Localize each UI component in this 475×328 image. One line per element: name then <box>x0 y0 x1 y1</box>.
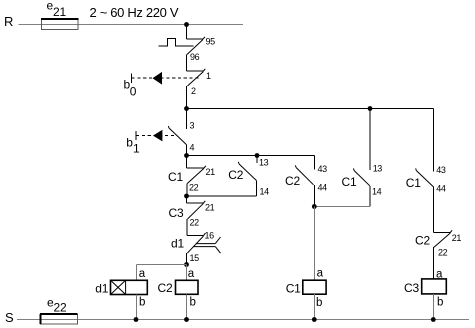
node rail S at C1 <box>312 317 317 322</box>
svg-text:1: 1 <box>133 142 140 156</box>
svg-text:d1: d1 <box>171 237 184 251</box>
pin 21 of C3 <box>205 203 215 213</box>
wire d1 coil to rail S <box>136 295 138 320</box>
svg-text:22: 22 <box>190 218 200 228</box>
svg-text:a: a <box>317 268 324 280</box>
pin 95 <box>206 37 216 47</box>
svg-text:C1: C1 <box>168 170 183 184</box>
svg-text:43: 43 <box>436 165 446 175</box>
node below C1 22 <box>184 194 189 199</box>
svg-text:2 ~ 60 Hz 220 V: 2 ~ 60 Hz 220 V <box>90 5 179 20</box>
node rail S at C3 <box>431 317 436 322</box>
wire node4 line to C2 43 column <box>187 155 315 157</box>
svg-text:44: 44 <box>318 183 328 193</box>
svg-text:1: 1 <box>206 71 211 81</box>
svg-text:R: R <box>4 14 13 29</box>
wire down to d1 coil <box>136 265 138 281</box>
label b1 <box>126 136 140 156</box>
label C2 (43-44) <box>285 174 300 188</box>
label d1 coil <box>95 282 108 296</box>
svg-text:C1: C1 <box>406 176 421 190</box>
svg-text:2: 2 <box>191 86 196 96</box>
svg-text:C2: C2 <box>158 281 173 295</box>
pin 96 <box>190 52 200 62</box>
svg-text:96: 96 <box>190 52 200 62</box>
wire rail R <box>19 24 244 26</box>
fuse e21 <box>41 19 79 30</box>
svg-text:14: 14 <box>372 187 382 197</box>
svg-text:d1: d1 <box>95 282 108 296</box>
label e22 <box>47 296 67 315</box>
coil C2 <box>176 280 199 294</box>
label C3 <box>169 206 184 220</box>
node rail S at C2 <box>184 317 189 322</box>
pushbutton b0 NC contact <box>187 69 206 109</box>
pin 14 of C1 <box>372 187 382 197</box>
node 4 <box>184 153 189 158</box>
node rail S at d1 <box>134 317 139 322</box>
terminal b of C2 <box>190 297 196 309</box>
pin 43 of C1 <box>436 165 446 175</box>
pin 14 <box>260 187 270 197</box>
coil C3 <box>422 279 447 294</box>
svg-text:43: 43 <box>318 164 328 174</box>
svg-text:14: 14 <box>260 187 270 197</box>
pin 21 <box>206 167 216 177</box>
svg-text:b: b <box>139 297 145 309</box>
node on rail R <box>184 22 189 27</box>
pin 15 <box>190 253 200 263</box>
label C1 (13-14) <box>342 175 357 189</box>
wire right column down from node line <box>432 109 434 172</box>
pin 13 of C1 <box>373 164 383 174</box>
contact C1 21-22 NC <box>187 156 206 197</box>
b0 actuator (dashed with arrow) <box>132 72 200 85</box>
pin 43 of C2 <box>318 164 328 174</box>
pin 44 of C1 <box>436 184 446 194</box>
contact C2 43-44 NO <box>295 156 314 207</box>
node below C2 44 <box>312 204 317 209</box>
b1 actuator (dashed with arrow) <box>136 130 176 142</box>
svg-text:b: b <box>190 297 196 309</box>
wire 96 to b0 <box>186 55 188 72</box>
pin 2 <box>191 86 196 96</box>
svg-text:22: 22 <box>189 183 199 193</box>
overload relay contact 95-96 <box>159 37 206 55</box>
svg-text:4: 4 <box>190 143 195 153</box>
svg-text:13: 13 <box>259 158 269 168</box>
svg-text:95: 95 <box>206 37 216 47</box>
label d1 <box>171 237 184 251</box>
pin 22 of C2 <box>438 248 448 258</box>
label e21 <box>47 0 67 19</box>
svg-text:13: 13 <box>373 164 383 174</box>
node 13 of C1 on upper line <box>368 106 373 111</box>
node 13 on node4 line <box>255 153 260 158</box>
wire node line to right branch <box>187 108 434 110</box>
svg-text:21: 21 <box>206 167 216 177</box>
wire C2 coil to rail S <box>186 294 188 319</box>
svg-text:21: 21 <box>205 203 215 213</box>
svg-text:22: 22 <box>54 300 67 314</box>
pin 21 of C2 <box>452 233 462 243</box>
terminal b of d1 <box>139 297 145 309</box>
pin 44 of C2 <box>318 183 328 193</box>
svg-text:b: b <box>316 297 322 309</box>
svg-text:C2: C2 <box>285 174 300 188</box>
svg-text:22: 22 <box>438 248 448 258</box>
svg-text:a: a <box>139 268 146 280</box>
terminal a of C3 <box>436 269 443 281</box>
pin 22 <box>189 183 199 193</box>
pin 3 <box>190 121 195 131</box>
contact C2 13-14 NO <box>238 156 257 197</box>
wire to d1 coil branch <box>137 264 187 266</box>
svg-text:a: a <box>188 268 195 280</box>
svg-text:b: b <box>437 297 443 309</box>
contact C1 43-44 NO <box>416 168 434 232</box>
wire down to C1 coil <box>313 207 315 281</box>
svg-text:16: 16 <box>205 231 215 241</box>
wire C3 coil to rail S <box>432 294 434 320</box>
label 2 ~ 60 Hz 220 V <box>90 5 179 20</box>
svg-text:0: 0 <box>130 85 137 99</box>
terminal b of C1 <box>316 297 322 309</box>
node 15 junction <box>184 262 189 267</box>
contact C1 13-14 NO <box>353 109 370 207</box>
contact C2 21-22 NC <box>433 230 452 279</box>
svg-text:15: 15 <box>190 253 200 263</box>
svg-text:3: 3 <box>190 121 195 131</box>
wire node to C2 14 <box>187 195 257 197</box>
svg-text:C3: C3 <box>404 281 419 295</box>
wire node15 down to C2 coil <box>186 265 188 281</box>
terminal a of d1 <box>139 268 146 280</box>
wire C1-14 to C1 coil column <box>314 206 370 208</box>
coil d1 (time relay) <box>111 280 148 294</box>
timed contact d1 16-15 <box>187 233 221 264</box>
pin 1 <box>206 71 211 81</box>
terminal a of C2 <box>188 268 195 280</box>
wire from rail R down <box>186 25 188 40</box>
label C2 (21-22) <box>415 234 430 248</box>
pin 22 of C3 <box>190 218 200 228</box>
wire C1 coil to rail S <box>313 294 315 319</box>
label C1 <box>168 170 183 184</box>
svg-text:21: 21 <box>452 233 462 243</box>
svg-text:S: S <box>5 310 14 325</box>
svg-text:44: 44 <box>436 184 446 194</box>
label S (phase S) <box>5 310 14 325</box>
pin 4 <box>190 143 195 153</box>
terminal b of C3 <box>437 297 443 309</box>
pushbutton b1 NO contact <box>168 109 186 156</box>
svg-text:C2: C2 <box>415 234 430 248</box>
label R (phase R) <box>4 14 13 29</box>
pin 16 <box>205 231 215 241</box>
terminal a of C1 <box>317 268 324 280</box>
svg-text:C1: C1 <box>286 281 301 295</box>
label b0 <box>124 78 137 99</box>
coil C1 <box>303 280 326 294</box>
label C3 coil <box>404 281 419 295</box>
svg-text:21: 21 <box>53 5 66 19</box>
wire rail S <box>17 319 469 321</box>
label C2 <box>228 168 243 182</box>
node 2 (b0/b1 junction) <box>184 106 189 111</box>
label C1 (43-44) <box>406 176 421 190</box>
label C2 coil <box>158 281 173 295</box>
fuse e22 <box>40 314 78 324</box>
label C1 coil <box>286 281 301 295</box>
svg-text:C1: C1 <box>342 175 357 189</box>
svg-text:C2: C2 <box>228 168 243 182</box>
svg-text:C3: C3 <box>169 206 184 220</box>
pin 13 <box>259 158 269 168</box>
contact C3 21-22 NC <box>187 196 206 236</box>
